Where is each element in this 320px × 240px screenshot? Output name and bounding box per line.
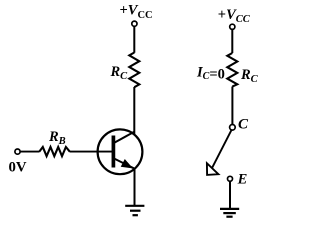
switch arm (open) [210,130,231,171]
resistor RB [39,147,69,156]
terminal +VCC (right) [230,24,235,29]
transistor Q1 emitter arrow [122,160,132,168]
wire [231,30,233,54]
svg-text:IC=0: IC=0 [196,64,225,82]
terminal 0V [15,149,20,154]
transistor Q1 collector lead [114,132,135,143]
wire [20,151,39,153]
wire emitter [134,169,136,206]
node C terminal [230,125,236,131]
terminal +VCC (left) [132,21,137,26]
transistor Q1 circle [98,129,143,174]
svg-text:C: C [238,116,249,132]
node E terminal [228,176,233,181]
wire [229,181,231,208]
wire [133,26,135,52]
transistor Q1 emitter lead [114,158,135,168]
node +VCC label (right) [218,7,251,25]
ground (left) [125,206,144,215]
node +VCC label (left) [120,2,153,21]
wire [231,87,233,125]
svg-text:0V: 0V [9,159,27,175]
switch arrowhead [207,163,219,175]
wire base [70,151,113,153]
svg-text:E: E [237,171,248,187]
transistor Q1 base bar [112,136,116,168]
resistor RC (left) [129,53,139,88]
resistor RC (right) [227,53,237,87]
wire collector [133,87,135,134]
ground (right) [220,209,239,217]
